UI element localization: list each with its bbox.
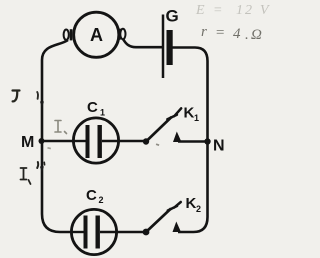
svg-text:A: A xyxy=(90,25,103,45)
wire C2 to K2 xyxy=(117,231,146,233)
svg-text:=: = xyxy=(215,25,225,41)
wire M to C1 xyxy=(42,140,87,142)
node M junction dot xyxy=(39,138,45,144)
node N junction dot xyxy=(204,138,210,144)
wire into C2 left xyxy=(71,231,84,233)
svg-text:1: 1 xyxy=(236,3,243,18)
capacitor C2 circle xyxy=(71,209,116,254)
svg-text:Ω: Ω xyxy=(251,27,262,43)
svg-text:N: N xyxy=(213,138,225,155)
ammeter A1 circle xyxy=(74,12,119,57)
svg-text:G: G xyxy=(166,7,179,26)
arrow tick on wire below M xyxy=(40,162,45,172)
handwritten annotation E = 12V xyxy=(195,3,270,18)
wire K1 to N xyxy=(178,140,208,142)
faint speck right of M xyxy=(47,147,51,149)
wire from ammeter left terminal down left side to C2 xyxy=(42,40,71,232)
switch K2 lever xyxy=(146,209,171,233)
handwritten annotation r = 4 ohm xyxy=(201,24,262,43)
K2 fixed contact triangle xyxy=(173,222,182,233)
svg-text:2: 2 xyxy=(245,3,252,18)
svg-text:1: 1 xyxy=(194,113,199,123)
svg-text:=: = xyxy=(213,3,222,18)
svg-text:.: . xyxy=(245,27,249,43)
current arrow on left wire (top) xyxy=(37,92,44,107)
switch K1 lever xyxy=(146,117,172,142)
C2 right plate xyxy=(96,216,100,249)
switch K2 pivot dot xyxy=(143,229,150,236)
handwritten I1 (gray) xyxy=(55,121,67,134)
C1 right plate xyxy=(98,125,102,158)
ammeter right terminal xyxy=(119,29,125,40)
capacitor C1 circle xyxy=(73,118,118,163)
C2 left plate xyxy=(84,216,88,249)
wire from battery right around top-right corner down to K2 corner xyxy=(173,48,208,233)
wire from ammeter right terminal to battery xyxy=(123,39,162,47)
wire into C1 left xyxy=(73,140,86,142)
ammeter left terminal xyxy=(64,29,71,40)
wire out C2 right xyxy=(100,231,117,233)
K1 lever end ticks xyxy=(167,108,181,119)
battery G short thick plate xyxy=(167,30,173,65)
svg-text:1: 1 xyxy=(100,108,105,118)
faint speck below K1 lever xyxy=(156,143,160,146)
svg-text:M: M xyxy=(21,134,34,151)
battery G long thin plate xyxy=(162,15,165,79)
wire C1 to K1 xyxy=(102,140,147,142)
handwritten J xyxy=(13,91,20,102)
svg-text:Ε: Ε xyxy=(195,3,205,18)
svg-text:C: C xyxy=(86,187,97,204)
K2 lever end ticks xyxy=(168,202,181,211)
handwritten I1' below M xyxy=(21,162,39,184)
switch K1 pivot dot xyxy=(143,138,149,144)
svg-text:V: V xyxy=(260,3,270,18)
svg-text:r: r xyxy=(201,24,207,40)
svg-text:2: 2 xyxy=(99,195,104,205)
svg-text:4: 4 xyxy=(233,26,241,42)
svg-text:C: C xyxy=(87,99,98,116)
svg-text:K: K xyxy=(184,105,195,122)
svg-text:K: K xyxy=(186,195,197,212)
C1 left plate xyxy=(86,125,90,158)
svg-text:2: 2 xyxy=(196,204,201,214)
K1 fixed contact triangle xyxy=(173,132,182,143)
wire out C1 right xyxy=(102,140,119,142)
